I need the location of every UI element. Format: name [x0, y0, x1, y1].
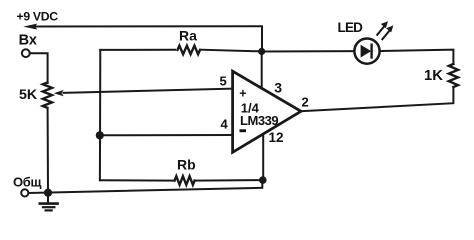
wire divider vertical	[99, 50, 101, 180]
resistor 1K	[449, 64, 458, 87]
potentiometer 5K	[43, 83, 52, 108]
wire pin4 input	[100, 134, 233, 136]
svg-text:+: +	[239, 87, 246, 101]
svg-text:Общ: Общ	[13, 175, 42, 190]
wire pin3 vertical	[261, 52, 263, 90]
svg-text:Ra: Ra	[179, 28, 197, 44]
node pot wiper arrowhead	[54, 90, 64, 96]
LED light arrow 1	[377, 26, 385, 35]
wire junction A to LED	[262, 50, 355, 52]
op-amp U1 1/4 LM339	[233, 71, 301, 152]
node +9V rail arrowhead	[23, 24, 37, 30]
svg-text:3: 3	[274, 80, 282, 96]
svg-text:5K: 5K	[19, 87, 38, 103]
svg-text:4: 4	[221, 117, 229, 132]
svg-text:LED: LED	[338, 20, 364, 35]
node junction C (Rb / pin12 / gnd riser)	[259, 176, 267, 184]
wire pin5 input	[64, 89, 233, 93]
resistor Rb	[175, 176, 195, 185]
wire Вх to pot	[30, 53, 48, 83]
wire Rb left lead	[100, 179, 175, 181]
wire 1K to output	[301, 87, 453, 111]
LED light arrow 2	[382, 30, 390, 39]
resistor Ra	[178, 46, 201, 55]
wire Ra left lead	[100, 49, 175, 51]
svg-text:LM339: LM339	[240, 113, 278, 128]
wire pin12 vertical	[262, 135, 264, 181]
svg-text:2: 2	[302, 95, 309, 110]
svg-text:Rb: Rb	[177, 157, 196, 173]
wire pot to ground junction	[47, 108, 49, 193]
label - input	[240, 129, 247, 132]
svg-text:Вх: Вх	[19, 33, 37, 49]
svg-text:5: 5	[220, 73, 227, 88]
wire ground rail	[29, 181, 263, 193]
wire +9V top rail	[32, 26, 262, 51]
node junction A (Ra / pin3 / LED feed)	[258, 48, 265, 55]
svg-text:1K: 1K	[424, 68, 443, 84]
LED D1	[354, 39, 379, 64]
wire Rb right lead	[195, 179, 263, 182]
wire Ra right lead	[201, 50, 262, 52]
terminal Вх	[22, 49, 30, 57]
node junction D (pot bottom / gnd)	[44, 189, 52, 197]
ground	[40, 193, 58, 211]
terminal Общ	[21, 189, 28, 196]
svg-text:+9 VDC: +9 VDC	[17, 10, 59, 24]
wire LED to 1K	[380, 50, 454, 64]
node junction B (divider to pin4)	[96, 131, 104, 139]
svg-text:12: 12	[269, 130, 284, 145]
